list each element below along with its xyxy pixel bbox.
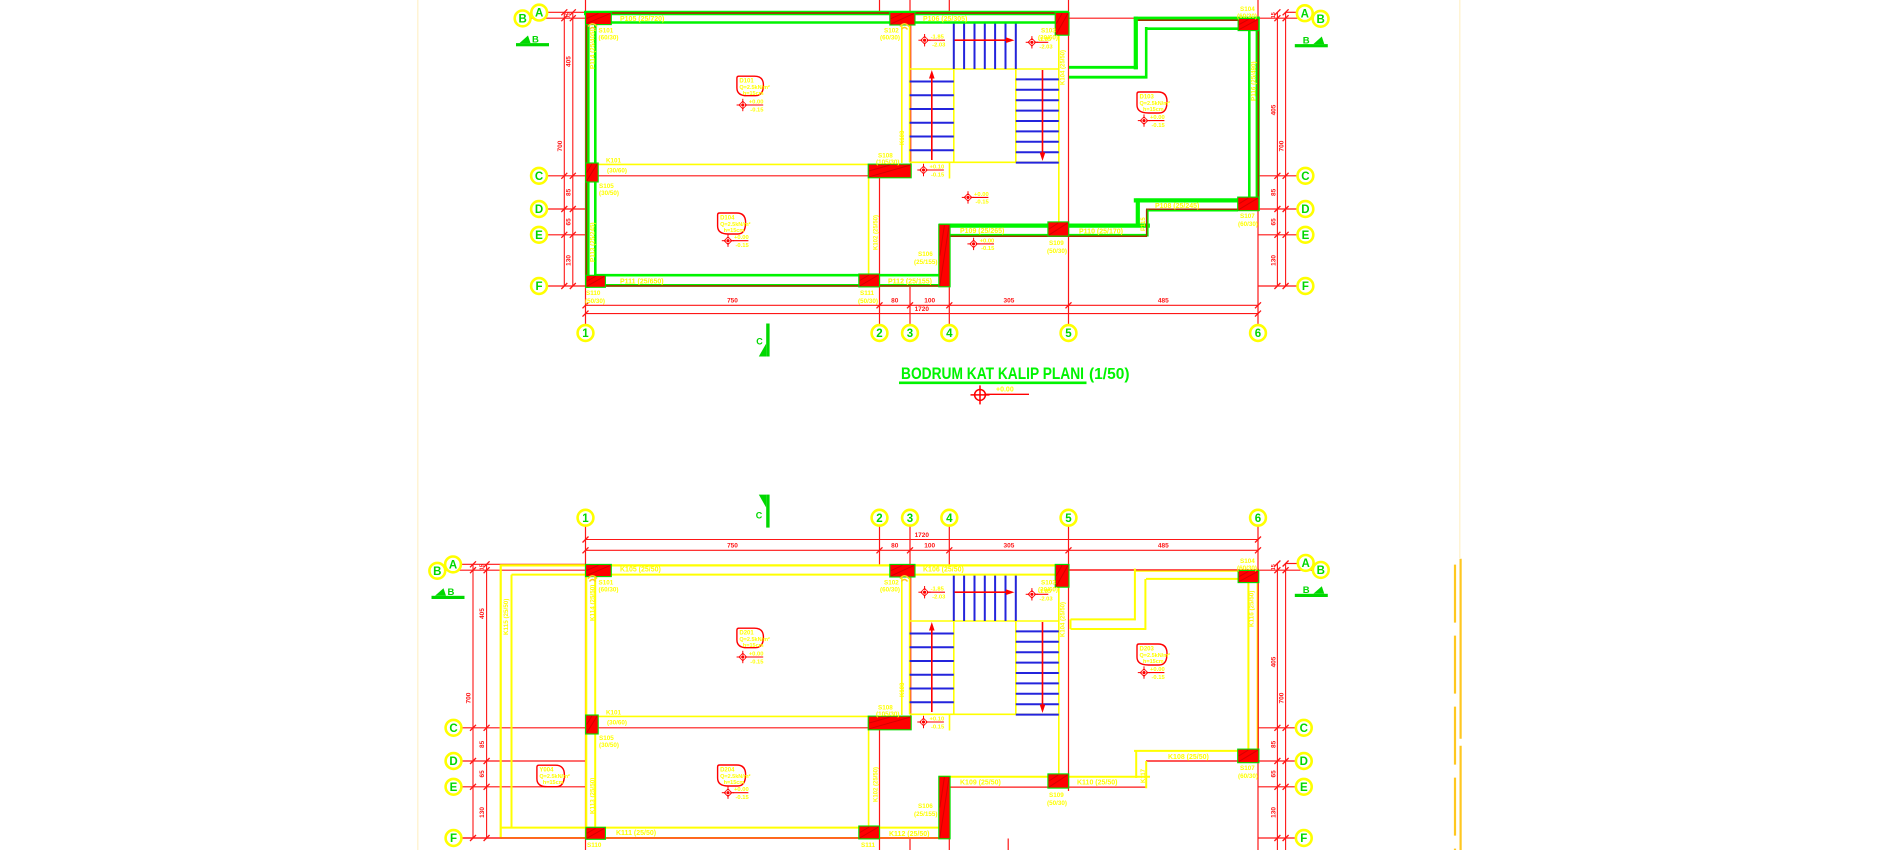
svg-text:E: E bbox=[1300, 782, 1308, 794]
wall top inner edge (top plan) bbox=[597, 21, 1056, 24]
level marker room D101 (top plan) bbox=[737, 99, 765, 114]
label K101 (top plan) bbox=[606, 158, 627, 175]
label K101 (bottom plan) bbox=[606, 710, 627, 727]
dim tick left bbox=[470, 561, 476, 567]
label S104 (bottom plan) bbox=[1237, 558, 1257, 572]
svg-text:(60/30): (60/30) bbox=[1238, 221, 1258, 228]
label S103 (top plan) bbox=[1038, 28, 1058, 42]
svg-text:-0.15: -0.15 bbox=[931, 724, 945, 730]
svg-text:65: 65 bbox=[479, 770, 486, 778]
svg-text:80: 80 bbox=[891, 297, 899, 304]
label S110 (top plan) bbox=[585, 290, 605, 305]
svg-text:B: B bbox=[448, 587, 455, 598]
grid bubble 6 (top plan) bbox=[1250, 325, 1266, 341]
grid bubble 4 (bottom plan) bbox=[941, 510, 957, 526]
svg-text:(60/30): (60/30) bbox=[1237, 565, 1257, 572]
svg-text:h=15cm: h=15cm bbox=[743, 91, 764, 97]
grid bubble 5 (bottom plan) bbox=[1061, 510, 1077, 526]
dim tick bottom row1 bbox=[877, 302, 883, 308]
dim tick right bbox=[1283, 567, 1289, 573]
column S108 (top plan) bbox=[868, 164, 911, 178]
wall jog upper inner vertical (top plan) bbox=[1145, 27, 1148, 79]
beam step upper horizontal (bottom plan) bbox=[1071, 618, 1136, 620]
grid bubble A right (top plan) bbox=[1297, 5, 1313, 21]
grid bubble B right (bottom plan) bbox=[1313, 562, 1329, 578]
grid bubble 6 (bottom plan) bbox=[1250, 510, 1266, 526]
svg-text:h=15cm: h=15cm bbox=[543, 780, 564, 786]
svg-text:F: F bbox=[450, 833, 457, 845]
beam K108 inner red edge (bottom plan) bbox=[1146, 760, 1238, 762]
beam step lower horizontal (bottom plan) bbox=[1071, 628, 1147, 630]
svg-text:+0.00: +0.00 bbox=[1150, 115, 1165, 121]
svg-text:Q=2.5kN/m²: Q=2.5kN/m² bbox=[739, 84, 770, 91]
grid bubble E left (bottom plan) bbox=[446, 779, 462, 795]
svg-text:2: 2 bbox=[876, 328, 882, 340]
svg-text:P109 (25/265): P109 (25/265) bbox=[960, 228, 1004, 235]
svg-text:B: B bbox=[518, 14, 526, 26]
axis D horizontal left (top plan) bbox=[547, 208, 586, 210]
dim tick left bbox=[570, 15, 576, 21]
stair boundary yellow left edge (top plan) bbox=[909, 23, 911, 163]
dim tick top row2 bbox=[907, 547, 913, 553]
stair bottom line (bottom plan) bbox=[910, 713, 1059, 715]
grid bubble B left (top plan) bbox=[515, 11, 531, 27]
column S110 (top plan) bbox=[586, 275, 606, 287]
svg-text:P110 (25/170): P110 (25/170) bbox=[1079, 229, 1123, 236]
level marker room D203 (bottom plan) bbox=[1138, 666, 1166, 681]
svg-text:85: 85 bbox=[1270, 188, 1277, 196]
axis F horizontal right (top plan) bbox=[1258, 285, 1298, 287]
svg-text:S103: S103 bbox=[1041, 580, 1056, 587]
svg-text:700: 700 bbox=[466, 692, 473, 703]
dim tick left bbox=[561, 15, 567, 21]
stair well right edge (top plan) bbox=[1015, 23, 1017, 163]
dim tick left bbox=[470, 784, 476, 790]
svg-text:F: F bbox=[1302, 281, 1309, 293]
balcony beam K115 outer (bottom plan) bbox=[500, 565, 502, 839]
svg-text:S106: S106 bbox=[918, 803, 933, 810]
beam K105/K106 top outer edge (bottom plan) bbox=[500, 564, 1069, 566]
stair boundary yellow left edge (bottom plan) bbox=[909, 575, 911, 715]
dim tick right bbox=[1283, 835, 1289, 841]
svg-text:-0.15: -0.15 bbox=[736, 795, 750, 801]
svg-text:D103: D103 bbox=[1140, 95, 1155, 101]
svg-text:h=15cm: h=15cm bbox=[1143, 107, 1164, 113]
svg-text:-1.85: -1.85 bbox=[1038, 589, 1052, 595]
svg-text:A: A bbox=[449, 560, 457, 572]
svg-text:-0.15: -0.15 bbox=[931, 172, 945, 178]
wall P108 outer edge (top plan) bbox=[1134, 198, 1238, 202]
dim tick left bbox=[561, 206, 567, 212]
stair small stub at axis4 (top plan) bbox=[949, 162, 951, 178]
svg-text:485: 485 bbox=[1158, 297, 1169, 304]
right dimension line inner (top plan) bbox=[1276, 12, 1278, 286]
svg-text:Q=2.5kN/m²: Q=2.5kN/m² bbox=[720, 221, 751, 228]
label S101 (bottom plan) bbox=[599, 580, 619, 594]
beam K108 outer edge (bottom plan) bbox=[1134, 750, 1238, 752]
svg-text:5: 5 bbox=[1065, 328, 1072, 340]
wall east inner edge (top plan) bbox=[1248, 29, 1251, 199]
svg-text:E: E bbox=[450, 782, 458, 794]
svg-text:130: 130 bbox=[479, 807, 486, 818]
right dimension line outer (bottom plan) bbox=[1285, 564, 1287, 850]
stair beam line K103 (bottom plan) bbox=[901, 577, 903, 716]
level marker stair landing left (bottom plan) bbox=[918, 586, 946, 601]
beam jog upper outer vertical (bottom plan) bbox=[1134, 569, 1136, 621]
svg-text:750: 750 bbox=[727, 543, 738, 550]
dim tick right bbox=[1283, 206, 1289, 212]
balcony beam K115 inner (bottom plan) bbox=[511, 575, 513, 828]
svg-text:6: 6 bbox=[1255, 513, 1261, 525]
column S104 (bottom plan) bbox=[1238, 570, 1259, 582]
dim tick top total right bbox=[1255, 537, 1261, 543]
svg-text:405: 405 bbox=[565, 56, 572, 67]
axis B horizontal right (bottom plan) bbox=[1069, 569, 1314, 571]
column S101 (top plan) bbox=[586, 12, 612, 24]
label S108 (top plan) bbox=[876, 153, 899, 166]
svg-text:K103: K103 bbox=[900, 682, 906, 697]
dim tick right bbox=[1274, 561, 1280, 567]
stair right flight treads (bottom plan) bbox=[1016, 631, 1059, 714]
dim tick bottom row1 bbox=[946, 302, 952, 308]
beam step connector (bottom plan) bbox=[1070, 619, 1072, 629]
svg-text:S101: S101 bbox=[599, 580, 614, 587]
svg-text:-0.15: -0.15 bbox=[750, 107, 764, 113]
svg-text:P111 (25/650): P111 (25/650) bbox=[620, 278, 664, 285]
svg-text:C: C bbox=[1301, 171, 1309, 183]
svg-text:65: 65 bbox=[565, 218, 572, 226]
svg-text:(1/50): (1/50) bbox=[1089, 366, 1130, 383]
svg-text:P113 (25/245): P113 (25/245) bbox=[590, 222, 597, 262]
top dimension line total (bottom plan) bbox=[586, 539, 1259, 541]
wall left outer edge K114/K113 (bottom plan) bbox=[585, 564, 587, 839]
dim tick right bbox=[1274, 283, 1280, 289]
svg-text:C: C bbox=[756, 337, 763, 347]
svg-text:130: 130 bbox=[1270, 807, 1277, 818]
wall left outer edge P114/P113 (top plan) bbox=[584, 11, 589, 288]
svg-text:S109: S109 bbox=[1049, 792, 1064, 799]
svg-text:-0.15: -0.15 bbox=[1152, 123, 1166, 129]
svg-text:(60/30): (60/30) bbox=[1237, 13, 1257, 20]
svg-text:S101: S101 bbox=[599, 28, 614, 35]
label S111 (bottom plan) bbox=[858, 842, 878, 850]
stair arrow down right flight (top plan) bbox=[1040, 70, 1046, 161]
label S106 (top plan) bbox=[914, 251, 937, 266]
svg-text:700: 700 bbox=[557, 140, 564, 151]
svg-text:K116 (25/50): K116 (25/50) bbox=[1249, 591, 1256, 627]
dim tick right bbox=[1274, 232, 1280, 238]
dim tick right bbox=[1283, 283, 1289, 289]
beam top inner edge (bottom plan) bbox=[512, 574, 1056, 576]
dim tick left bbox=[484, 784, 490, 790]
svg-text:130: 130 bbox=[565, 255, 572, 266]
level marker room D204 (bottom plan) bbox=[722, 787, 750, 802]
dim tick left bbox=[484, 567, 490, 573]
beam B-row top-right outer (bottom plan) bbox=[1069, 569, 1260, 572]
svg-text:E: E bbox=[535, 230, 543, 242]
dim tick bottom row2 left bbox=[583, 311, 589, 317]
label S107 (bottom plan) bbox=[1238, 765, 1258, 780]
dim tick right bbox=[1283, 758, 1289, 764]
label S111 (top plan) bbox=[858, 290, 878, 305]
label S109 (top plan) bbox=[1047, 240, 1067, 255]
grid bubble 4 (top plan) bbox=[941, 325, 957, 341]
svg-text:h=15cm: h=15cm bbox=[724, 780, 745, 786]
dim tick right bbox=[1283, 9, 1289, 15]
column corner arcs S102 (top plan) bbox=[900, 24, 909, 30]
svg-text:(60/30): (60/30) bbox=[880, 587, 900, 594]
section mark B right (bottom plan) bbox=[1295, 585, 1328, 597]
wall P115 jog lower outer vertical (top plan) bbox=[1136, 198, 1140, 227]
svg-text:D: D bbox=[1301, 204, 1309, 216]
dim tick right bbox=[1274, 835, 1280, 841]
dim tick top row2 bbox=[583, 547, 589, 553]
wall step upper horizontal (top plan) bbox=[1069, 66, 1138, 69]
svg-text:-1.85: -1.85 bbox=[931, 35, 945, 41]
svg-text:2: 2 bbox=[876, 513, 882, 525]
section mark B left (bottom plan) bbox=[432, 587, 465, 599]
beam jog lower outer vertical (bottom plan) bbox=[1135, 751, 1137, 778]
dim tick right bbox=[1274, 206, 1280, 212]
axis D horizontal right (bottom plan) bbox=[1146, 760, 1296, 762]
svg-text:D: D bbox=[1300, 756, 1308, 768]
svg-text:K111 (25/50): K111 (25/50) bbox=[616, 830, 656, 837]
svg-text:h=15cm: h=15cm bbox=[743, 643, 764, 649]
beam B-row top-right inner (bottom plan) bbox=[1146, 578, 1239, 580]
svg-text:Q=2.5kN/m²: Q=2.5kN/m² bbox=[720, 773, 751, 780]
left dimension line outer (top plan) bbox=[563, 12, 565, 286]
label S109 (bottom plan) bbox=[1047, 792, 1067, 807]
svg-text:4: 4 bbox=[946, 328, 953, 340]
axis B horizontal left (top plan) bbox=[530, 17, 585, 19]
beam jog lower inner vertical (bottom plan) bbox=[1145, 761, 1147, 788]
stair landing line (bottom plan) bbox=[910, 620, 1059, 622]
column S109 (bottom plan) bbox=[1048, 774, 1069, 788]
beam jog upper inner vertical (bottom plan) bbox=[1144, 579, 1146, 630]
grid bubble 2 (bottom plan) bbox=[872, 510, 888, 526]
svg-text:(30/50): (30/50) bbox=[599, 190, 619, 197]
svg-text:5: 5 bbox=[1065, 513, 1072, 525]
svg-text:E: E bbox=[1302, 230, 1310, 242]
svg-text:405: 405 bbox=[1270, 656, 1277, 667]
section mark B right (top plan) bbox=[1295, 36, 1328, 48]
stair well left edge (top plan) bbox=[953, 23, 955, 163]
grid bubble A left (bottom plan) bbox=[445, 557, 461, 573]
svg-text:D: D bbox=[449, 756, 457, 768]
level marker terrace (top plan) bbox=[967, 238, 995, 253]
svg-text:B: B bbox=[1303, 585, 1310, 596]
svg-text:+0.10: +0.10 bbox=[930, 717, 945, 723]
svg-text:K102 (25/50): K102 (25/50) bbox=[874, 767, 880, 802]
svg-text:+0.00: +0.00 bbox=[749, 100, 764, 106]
column S107 (top plan) bbox=[1238, 197, 1259, 211]
svg-text:1: 1 bbox=[582, 328, 589, 340]
dim tick right bbox=[1283, 15, 1289, 21]
column S105 (bottom plan) bbox=[586, 715, 599, 734]
sheet border faint line left bbox=[417, 0, 419, 850]
svg-text:K106 (25/50): K106 (25/50) bbox=[923, 567, 964, 574]
svg-text:D203: D203 bbox=[1140, 647, 1155, 653]
svg-text:65: 65 bbox=[1270, 218, 1277, 226]
column S111 (bottom plan) bbox=[859, 826, 880, 839]
svg-text:-2.03: -2.03 bbox=[932, 43, 946, 49]
section mark C top (bottom plan) bbox=[756, 495, 770, 528]
svg-text:A: A bbox=[1301, 8, 1309, 20]
svg-text:(60/30): (60/30) bbox=[880, 35, 900, 42]
extension line below wall (bottom plan) bbox=[1007, 839, 1009, 850]
svg-text:K104 (25/50): K104 (25/50) bbox=[1061, 602, 1067, 637]
axis F horizontal left (bottom plan) bbox=[461, 837, 950, 839]
axis C horizontal right (top plan) bbox=[1259, 175, 1298, 177]
svg-text:D104: D104 bbox=[720, 216, 735, 222]
axis E horizontal right (top plan) bbox=[1259, 234, 1298, 236]
svg-text:B: B bbox=[532, 35, 539, 46]
svg-text:K112 (25/50): K112 (25/50) bbox=[889, 831, 929, 838]
dim tick left bbox=[570, 206, 576, 212]
wall B-row top-right outer edge (top plan) bbox=[1134, 19, 1260, 21]
dim tick left bbox=[561, 173, 567, 179]
svg-text:B: B bbox=[1303, 36, 1310, 47]
grid bubble A right (bottom plan) bbox=[1298, 555, 1314, 571]
column corner arcs S101 (top plan) bbox=[588, 24, 597, 30]
stair well right edge (bottom plan) bbox=[1015, 575, 1017, 715]
grid bubble 2 (top plan) bbox=[872, 325, 888, 341]
svg-text:S102: S102 bbox=[884, 28, 899, 35]
svg-text:S109: S109 bbox=[1049, 240, 1064, 247]
dim tick right bbox=[1283, 784, 1289, 790]
svg-text:700: 700 bbox=[1279, 692, 1286, 703]
area label D101 (top plan) bbox=[737, 76, 770, 97]
dim tick bottom row1 bbox=[1066, 302, 1072, 308]
svg-text:405: 405 bbox=[1270, 104, 1277, 115]
svg-text:K114 (25/50): K114 (25/50) bbox=[590, 585, 597, 621]
svg-text:(60/30): (60/30) bbox=[1238, 773, 1258, 780]
axis 2 vertical line (bottom plan) bbox=[879, 526, 881, 850]
dim tick bottom row2 right bbox=[1255, 311, 1261, 317]
svg-text:S107: S107 bbox=[1240, 765, 1255, 772]
svg-text:3: 3 bbox=[907, 328, 913, 340]
grid bubble C left (top plan) bbox=[531, 168, 547, 184]
svg-text:Q=2.5kN/m²: Q=2.5kN/m² bbox=[539, 773, 570, 780]
column corner arcs S101 (bottom plan) bbox=[588, 576, 597, 582]
svg-text:-0.15: -0.15 bbox=[1152, 675, 1166, 681]
svg-text:750: 750 bbox=[727, 297, 738, 304]
wall jog upper outer vertical (top plan) bbox=[1134, 17, 1138, 70]
grid bubble B right (top plan) bbox=[1313, 11, 1329, 27]
dim tick right bbox=[1283, 232, 1289, 238]
axis 2 vertical line (top plan) bbox=[879, 0, 881, 325]
axis C horizontal (top plan) bbox=[547, 175, 910, 177]
svg-text:305: 305 bbox=[1003, 297, 1014, 304]
column S102 (top plan) bbox=[890, 12, 915, 25]
wall east outer edge K116 (bottom plan) bbox=[1257, 569, 1260, 762]
svg-text:+0.00: +0.00 bbox=[980, 238, 995, 244]
svg-text:-1.85: -1.85 bbox=[931, 587, 945, 593]
grid bubble D left (top plan) bbox=[531, 201, 547, 217]
grid bubble F left (top plan) bbox=[531, 278, 547, 294]
dim tick right bbox=[1283, 173, 1289, 179]
svg-text:P114 (25/405): P114 (25/405) bbox=[590, 29, 597, 69]
label S105 (bottom plan) bbox=[599, 735, 619, 749]
axis 6 vertical line (top plan) bbox=[1257, 0, 1259, 325]
grid bubble C left (bottom plan) bbox=[446, 720, 462, 736]
svg-text:65: 65 bbox=[1270, 770, 1277, 778]
label S106 (bottom plan) bbox=[914, 803, 937, 818]
column S107 (bottom plan) bbox=[1238, 749, 1259, 763]
left dimension line inner (top plan) bbox=[572, 12, 574, 286]
column corner arcs S102 (bottom plan) bbox=[900, 576, 909, 582]
left dimension line inner (bottom plan) bbox=[486, 564, 488, 838]
svg-text:K103: K103 bbox=[900, 130, 906, 145]
axis 6 vertical line (bottom plan) bbox=[1257, 526, 1259, 850]
dim tick right bbox=[1274, 725, 1280, 731]
axis E horizontal left (top plan) bbox=[547, 234, 586, 236]
column S103 (bottom plan) bbox=[1055, 564, 1069, 587]
svg-text:S111: S111 bbox=[860, 290, 875, 297]
stair right flight treads (top plan) bbox=[1016, 79, 1059, 162]
dim tick left bbox=[484, 758, 490, 764]
level marker room D103 (top plan) bbox=[1138, 114, 1166, 128]
svg-text:-2.03: -2.03 bbox=[1039, 45, 1053, 51]
svg-text:K113 (25/50): K113 (25/50) bbox=[590, 778, 597, 814]
label S107 (top plan) bbox=[1238, 213, 1258, 228]
grid bubble F left (bottom plan) bbox=[446, 830, 462, 846]
column S105 (top plan) bbox=[586, 163, 599, 182]
svg-text:1: 1 bbox=[582, 513, 589, 525]
svg-text:K108 (25/50): K108 (25/50) bbox=[1168, 754, 1209, 761]
axis B horizontal right (top plan) bbox=[1069, 17, 1313, 19]
svg-text:15: 15 bbox=[1271, 564, 1277, 570]
svg-text:K115 (25/50): K115 (25/50) bbox=[503, 599, 510, 635]
dim tick left bbox=[570, 173, 576, 179]
column S106 (bottom plan) bbox=[939, 776, 950, 839]
top dimension line row2 (bottom plan) bbox=[586, 549, 1259, 551]
svg-text:Q=2.5kN/m²: Q=2.5kN/m² bbox=[1140, 652, 1171, 659]
right dimension line inner (bottom plan) bbox=[1276, 564, 1278, 850]
dim tick right bbox=[1283, 725, 1289, 731]
svg-text:D204: D204 bbox=[720, 768, 735, 774]
wall B-row top-right inner edge (top plan) bbox=[1146, 27, 1239, 30]
area label D204 (bottom plan) bbox=[718, 765, 751, 786]
svg-text:(25/155): (25/155) bbox=[914, 259, 937, 266]
axis 1 vertical line (bottom plan) bbox=[585, 526, 587, 850]
label S103 (bottom plan) bbox=[1038, 580, 1058, 594]
svg-text:(105/30): (105/30) bbox=[876, 711, 899, 718]
grid bubble F right (bottom plan) bbox=[1296, 830, 1312, 846]
wall step lower horizontal (top plan) bbox=[1069, 76, 1148, 79]
axis D horizontal right (top plan) bbox=[1259, 208, 1298, 210]
area label D201 (bottom plan) bbox=[737, 628, 770, 649]
svg-text:1720: 1720 bbox=[915, 532, 930, 539]
label S102 (top plan) bbox=[880, 28, 900, 42]
stair arrow down right flight (bottom plan) bbox=[1040, 622, 1046, 713]
svg-text:100: 100 bbox=[924, 297, 935, 304]
dim tick right bbox=[1274, 15, 1280, 21]
svg-text:85: 85 bbox=[565, 188, 572, 196]
svg-text:A: A bbox=[1302, 558, 1310, 570]
stair right edge beam K104 (bottom plan) bbox=[1058, 575, 1060, 777]
wall left inner edge (top plan) bbox=[594, 23, 597, 277]
grid bubble 3 (bottom plan) bbox=[902, 510, 918, 526]
svg-text:85: 85 bbox=[1270, 740, 1277, 748]
dim tick left bbox=[570, 283, 576, 289]
level marker stair landing right (top plan) bbox=[1026, 36, 1054, 51]
dim tick top total left bbox=[583, 537, 589, 543]
svg-text:(30/60): (30/60) bbox=[607, 720, 627, 727]
svg-text:100: 100 bbox=[924, 543, 935, 550]
svg-text:P115: P115 bbox=[1141, 217, 1147, 231]
wall F bottom inner edge (top plan) bbox=[597, 274, 940, 277]
